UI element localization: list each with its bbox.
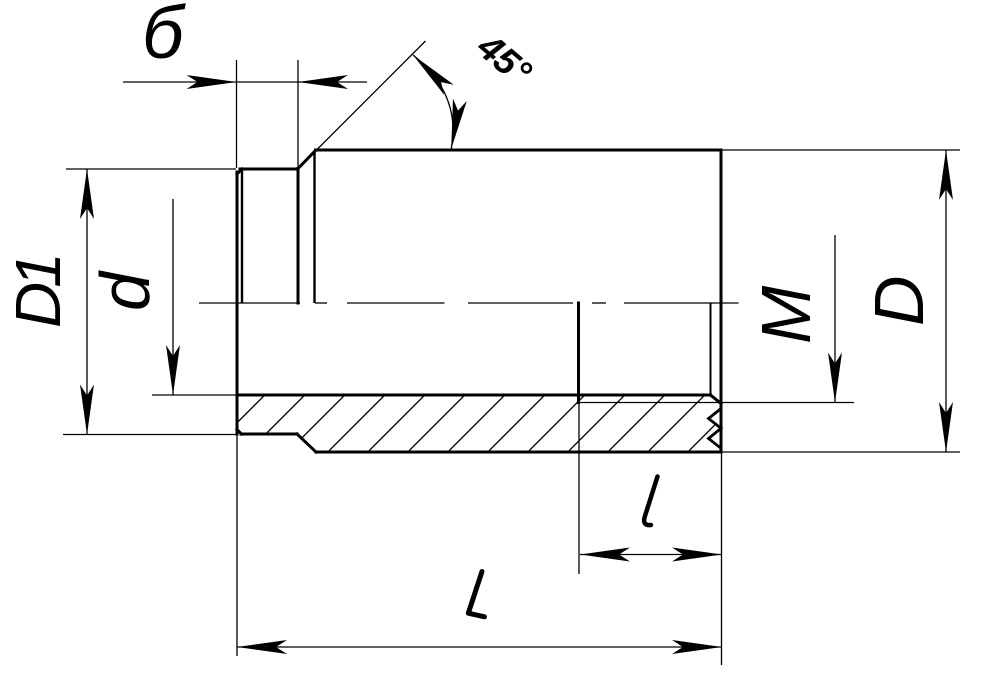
boss top edge xyxy=(240,168,298,171)
ext b left xyxy=(236,60,238,168)
dimension L line xyxy=(237,646,722,648)
boss left face xyxy=(236,172,239,434)
ext b right xyxy=(297,60,299,168)
thread teeth zigzag at right face xyxy=(709,409,722,449)
body bottom edge xyxy=(316,451,721,454)
arrow D1 top xyxy=(80,169,94,219)
bottom-left step chamfer xyxy=(297,434,316,452)
arrow L right xyxy=(672,640,722,654)
ext D top xyxy=(722,149,960,151)
chamfer edge line on body xyxy=(313,152,315,304)
arrow b right xyxy=(298,75,348,89)
arc arrow bottom xyxy=(444,99,466,151)
body right face xyxy=(720,150,723,452)
arrow l left xyxy=(580,548,630,562)
svg-text:M: M xyxy=(747,285,825,344)
top-left 45 deg chamfer xyxy=(298,151,316,169)
arrow l right xyxy=(672,548,722,562)
arrow L left xyxy=(237,640,287,654)
arrow d xyxy=(166,345,180,395)
chamfer edge line on boss xyxy=(241,169,243,303)
part outline: body xyxy=(237,150,721,452)
dimension b line xyxy=(123,81,367,83)
arrow D bottom xyxy=(939,402,953,452)
ext right face down xyxy=(721,453,723,665)
dimension M line xyxy=(834,235,836,403)
label l xyxy=(644,477,657,526)
dimension l line xyxy=(580,554,722,556)
svg-text:б: б xyxy=(142,0,186,74)
ext L left xyxy=(236,435,238,656)
svg-text:D: D xyxy=(860,275,938,326)
ext d xyxy=(152,394,237,396)
arrow D1 bottom xyxy=(80,385,94,435)
ext D1 bottom xyxy=(63,434,237,436)
ext l left xyxy=(578,403,580,574)
svg-text:d: d xyxy=(86,270,164,311)
arc arrow top xyxy=(408,50,454,95)
internal entry chamfer xyxy=(711,395,722,404)
angle arc 45 xyxy=(413,55,453,149)
centerline axis xyxy=(199,302,739,304)
boss left chamfer bottom xyxy=(237,430,242,435)
svg-text:D1: D1 xyxy=(2,257,74,328)
dimension D line xyxy=(945,150,947,452)
section hatching xyxy=(145,370,770,475)
chamfer leader 45 xyxy=(300,41,426,167)
thread end face line xyxy=(577,303,580,403)
bore line (thread minor) xyxy=(237,394,711,397)
dimension d line xyxy=(172,199,174,395)
boss bottom edge xyxy=(241,433,297,436)
arrow D top xyxy=(939,150,953,200)
arrow b left xyxy=(187,75,237,89)
ext D bottom xyxy=(722,451,960,453)
arrow M xyxy=(828,353,842,403)
ext M xyxy=(722,402,854,404)
ext D1 top xyxy=(66,168,236,170)
label L xyxy=(468,572,484,617)
body top edge xyxy=(316,149,722,152)
boss left chamfer top xyxy=(237,169,242,174)
left shoulder face xyxy=(297,169,300,304)
dimension D1 line xyxy=(86,169,88,435)
thread major diameter line xyxy=(579,402,721,404)
internal chamfer edge line xyxy=(710,303,712,395)
